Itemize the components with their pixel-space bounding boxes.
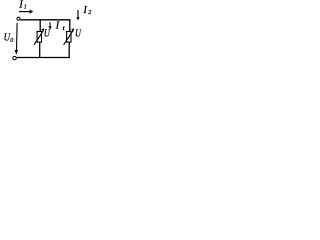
resistor R2 (varistor box): [67, 32, 71, 43]
terminal top-left: [17, 17, 20, 20]
wire right branch upper: [69, 19, 71, 31]
current arrow It: [49, 22, 52, 30]
arrow through R1: [34, 28, 44, 45]
svg-text:I: I: [18, 0, 23, 11]
wire left branch lower: [39, 42, 41, 58]
svg-text:2: 2: [88, 10, 91, 16]
label I1: [18, 0, 27, 11]
terminal bottom-left: [13, 56, 16, 59]
current arrow I1: [19, 9, 33, 13]
current arrow I2: [76, 10, 79, 20]
resistor R1 (varistor box): [37, 32, 41, 43]
wire top: [20, 19, 70, 21]
wire right branch lower: [68, 42, 70, 58]
voltage arrow U0: [15, 23, 19, 55]
label It: [55, 21, 65, 32]
label I2: [82, 5, 91, 16]
svg-text:1: 1: [24, 5, 27, 11]
wire left branch upper: [39, 19, 41, 31]
svg-text:0: 0: [10, 38, 13, 44]
arrow through R2: [64, 28, 75, 45]
label U0: [4, 32, 14, 44]
wire bottom: [16, 57, 70, 59]
svg-text:I: I: [82, 5, 87, 16]
svg-text:I: I: [55, 21, 60, 32]
